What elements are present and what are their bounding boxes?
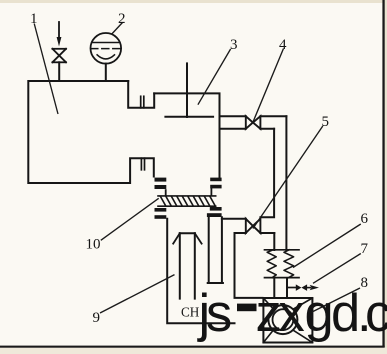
valve inlet arrow — [57, 22, 62, 47]
vessel 1 (left box) — [28, 81, 154, 183]
pump mount diagonals — [263, 298, 312, 343]
leader 5 — [253, 126, 323, 229]
pipe into bellows — [273, 233, 275, 250]
pipe below bellows — [273, 278, 275, 298]
gauge 2 — [91, 33, 122, 64]
pump 8 rotor circles — [268, 305, 297, 334]
probe crossbar — [165, 116, 213, 118]
lower joint ticks — [141, 158, 144, 170]
valve 1 hourglass — [52, 49, 66, 63]
venturi 5 outlet — [260, 232, 274, 234]
svg-text:7: 7 — [361, 241, 369, 257]
flange bars upper left — [155, 178, 167, 189]
valve 7 bowtie — [296, 284, 307, 291]
leader 6 — [293, 224, 361, 268]
inner tube walls — [179, 233, 181, 298]
svg-text:9: 9 — [93, 310, 101, 326]
inner tube funnel top — [180, 232, 195, 234]
leader 4 — [253, 49, 283, 122]
valve stem — [58, 62, 60, 81]
venturi 5 inlet channel — [222, 218, 246, 220]
svg-text:jszxgd.c: jszxgd.c — [197, 284, 387, 343]
frame bottom border — [0, 346, 385, 348]
leader 3 — [198, 49, 231, 105]
venturi 4 outlet — [260, 115, 286, 117]
svg-text:5: 5 — [322, 114, 330, 130]
leader 9 — [100, 275, 175, 313]
funnel left wing — [173, 233, 180, 243]
upper joint ticks — [141, 96, 144, 108]
svg-text:1: 1 — [30, 11, 38, 27]
leader 10 — [101, 198, 159, 240]
bellows right pleated wall — [284, 250, 294, 278]
pump 8 box — [263, 298, 312, 343]
flange bars lower left — [155, 208, 167, 219]
flange bars lower right — [207, 207, 222, 217]
leader 2 — [112, 23, 123, 35]
inner wall stubs above filter — [165, 190, 167, 196]
svg-text:2: 2 — [118, 11, 126, 27]
bypass duct wall — [235, 233, 263, 298]
venturi 4 cones — [246, 116, 261, 129]
venturi 4 inlet channel — [220, 115, 246, 117]
valve 7 branch line — [287, 287, 296, 289]
U channel bottom — [208, 282, 223, 284]
leader 1 — [34, 24, 58, 115]
bellows left pleated wall — [267, 250, 276, 278]
filter plate 10 — [158, 196, 216, 206]
svg-text:4: 4 — [279, 37, 287, 53]
venturi 5 cones — [246, 219, 261, 233]
chamber 9 left wall and bottom — [167, 219, 234, 323]
valve 7 outlet arrow — [307, 287, 310, 289]
gauge stem — [105, 64, 107, 81]
leader 7 — [313, 254, 361, 284]
svg-text:CH: CH — [181, 305, 200, 320]
riser pipe left wall — [260, 129, 274, 218]
U channel walls — [208, 217, 210, 282]
frame right border — [382, 0, 384, 347]
svg-text:6: 6 — [361, 211, 369, 227]
vessel 1 upper outlet step — [128, 81, 154, 108]
bellows bottom plate — [265, 277, 300, 279]
svg-text:10: 10 — [86, 237, 101, 253]
bellows top plate — [265, 249, 300, 251]
vessel 3 (middle box top) — [154, 93, 219, 177]
riser pipe right wall — [285, 116, 287, 250]
flange bars upper right — [210, 178, 221, 189]
leader 8 — [310, 288, 360, 313]
svg-text:3: 3 — [230, 37, 238, 53]
probe pipe 3 — [186, 63, 188, 117]
funnel right wing — [195, 233, 202, 243]
